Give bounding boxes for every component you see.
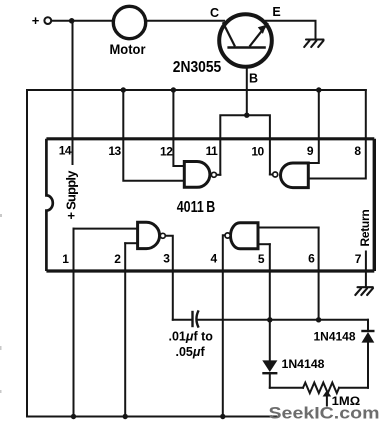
svg-text:6: 6	[308, 252, 315, 266]
svg-text:.01μf to: .01μf to	[169, 330, 214, 344]
svg-text:.05μf: .05μf	[176, 345, 206, 359]
svg-text:8: 8	[354, 144, 361, 158]
svg-text:10: 10	[251, 145, 264, 159]
svg-text:1N4148: 1N4148	[314, 332, 357, 344]
svg-text:7: 7	[355, 252, 362, 266]
svg-text:+ Supply: + Supply	[64, 170, 79, 220]
svg-text:14: 14	[59, 144, 72, 158]
svg-text:+: +	[32, 13, 40, 28]
svg-text:2: 2	[114, 252, 121, 266]
svg-text:B: B	[249, 72, 258, 86]
svg-text:13: 13	[108, 144, 121, 158]
svg-text:5: 5	[258, 252, 265, 266]
svg-text:SeekIC.com: SeekIC.com	[269, 404, 380, 423]
svg-text:Return: Return	[358, 210, 372, 247]
svg-text:9: 9	[307, 144, 314, 158]
svg-text:4011 B: 4011 B	[177, 199, 216, 216]
svg-text:3: 3	[163, 252, 170, 266]
svg-text:C: C	[210, 6, 219, 20]
svg-text:11: 11	[206, 144, 219, 158]
svg-text:1N4148: 1N4148	[282, 359, 326, 371]
svg-text:2N3055: 2N3055	[173, 59, 222, 76]
svg-text:12: 12	[160, 145, 173, 159]
svg-text:1: 1	[62, 252, 69, 266]
svg-text:Motor: Motor	[110, 42, 147, 57]
svg-text:4: 4	[211, 252, 218, 266]
svg-text:E: E	[272, 5, 280, 19]
